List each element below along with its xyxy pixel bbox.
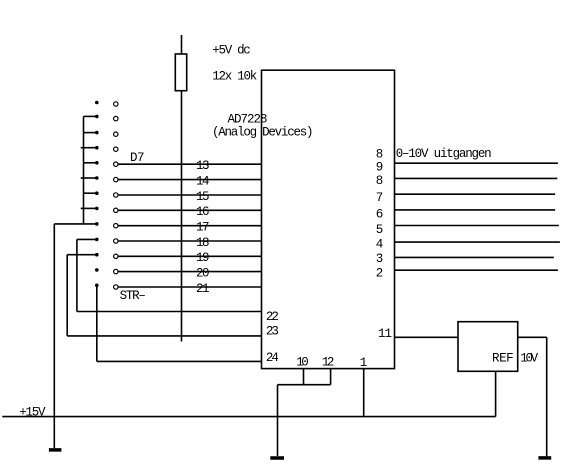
svg-text:10: 10: [296, 355, 309, 369]
connector J1 row 11 terminal circle: [114, 254, 118, 258]
wire row-9 stub from ground drop to bus/dot: [54, 223, 96, 225]
svg-text:5: 5: [376, 223, 384, 237]
connector J1 row 2 terminal circle: [114, 116, 118, 120]
svg-text:17: 17: [196, 221, 210, 235]
wire bus stub row 7: [84, 192, 96, 194]
connector J1 row 4 terminal circle: [114, 147, 118, 151]
svg-text:21: 21: [196, 282, 210, 296]
wire ground bus vertical (rows 2-9): [83, 116, 85, 223]
svg-text:3: 3: [376, 252, 384, 266]
svg-text:15: 15: [196, 190, 210, 204]
wire output line from pin 2: [395, 269, 558, 271]
svg-text:4: 4: [376, 237, 384, 251]
svg-text:1: 1: [360, 356, 368, 370]
connector J1 row 2 junction dot: [95, 115, 99, 119]
svg-text:STR–: STR–: [120, 289, 146, 303]
wire bus stub row 4: [81, 147, 96, 149]
wire pins 10/12 drop to ground: [277, 385, 279, 457]
svg-text:8: 8: [376, 174, 384, 188]
connector J1 row 7 junction dot: [95, 191, 99, 195]
wire output line from pin 6: [395, 209, 556, 211]
connector J1 row 8 junction dot: [95, 207, 99, 211]
connector J1 row 5 terminal circle: [114, 162, 118, 166]
wire REF bottom to +15V rail: [495, 371, 497, 416]
wire +15V rail: [2, 416, 495, 418]
wire bus stub row 8: [81, 207, 96, 209]
connector J1 row 1 terminal circle: [114, 102, 118, 106]
connector J1 row 6 terminal circle: [114, 177, 118, 181]
connector J1 row 4 junction dot: [95, 146, 99, 150]
connector J1 row 11 junction dot: [95, 253, 99, 257]
wire output line from pin 7: [395, 193, 556, 195]
wire to pin 24: [97, 360, 262, 362]
svg-text:+15V: +15V: [19, 405, 46, 419]
connector J1 row 6 junction dot: [95, 176, 99, 180]
svg-text:24: 24: [266, 351, 279, 365]
connector J1 row 1 junction dot: [95, 101, 99, 105]
svg-text:6: 6: [376, 208, 384, 222]
ground symbol left: [49, 448, 62, 452]
wire bus stub row 5: [84, 162, 96, 164]
svg-text:+5V dc: +5V dc: [212, 44, 251, 58]
connector J1 row 13 terminal circle: [114, 285, 118, 289]
svg-text:11: 11: [378, 327, 392, 341]
wire pin 11 to REF: [395, 336, 459, 338]
connector J1 row 3 junction dot: [95, 131, 99, 135]
wire ground drop vertical left: [53, 224, 55, 448]
svg-text:23: 23: [266, 324, 279, 338]
wire data line to pin 17: [118, 225, 261, 227]
svg-text:12: 12: [322, 355, 335, 369]
wire bus stub row 6: [81, 177, 96, 179]
svg-text:22: 22: [266, 310, 279, 324]
svg-text:7: 7: [376, 191, 384, 205]
connector J1 row 7 terminal circle: [114, 193, 118, 197]
svg-text:D7: D7: [130, 151, 145, 165]
svg-text:12x 10k: 12x 10k: [212, 70, 257, 84]
wire pin 12 down: [330, 369, 332, 385]
svg-text:20: 20: [196, 267, 210, 281]
wire data line to pin 13: [118, 163, 261, 165]
wire bus stub row 2: [84, 115, 96, 117]
connector J1 row 3 terminal circle: [114, 132, 118, 136]
svg-text:0–10V uitgangen: 0–10V uitgangen: [396, 147, 492, 161]
svg-text:18: 18: [196, 236, 210, 250]
wire output line from pin 9: [395, 162, 558, 164]
wire data line to pin 19: [118, 255, 261, 257]
connector J1 row 10 junction dot: [95, 238, 99, 242]
wire REF output drop to ground: [546, 337, 548, 456]
svg-text:16: 16: [196, 205, 210, 219]
svg-text:(Analog Devices): (Analog Devices): [212, 126, 314, 140]
connector J1 row 9 terminal circle: [114, 224, 118, 228]
wire row-11 drop vertical: [66, 255, 68, 336]
ground symbol right: [538, 456, 551, 460]
wire pin 10 down: [303, 369, 305, 385]
wire +5V supply stub to resistor top: [181, 35, 183, 54]
ground symbol centre: [270, 456, 284, 460]
connector J1 row 8 terminal circle: [114, 208, 118, 212]
voltage reference U2 REF box: [458, 322, 518, 372]
svg-text:REF: REF: [492, 352, 514, 366]
wire resistor bottom vertical rail down to pin-23 net: [181, 91, 183, 342]
wire data line to pin 20: [118, 271, 261, 273]
wire to pin 23: [67, 335, 261, 337]
svg-text:13: 13: [196, 159, 210, 173]
connector J1 row 9 junction dot: [95, 222, 99, 226]
wire data line to pin 14: [118, 179, 261, 181]
svg-text:AD7228: AD7228: [228, 113, 268, 127]
connector J1 row 10 terminal circle: [114, 239, 118, 243]
wire data line to pin 15: [118, 194, 261, 196]
connector J1 row 12 terminal circle: [114, 269, 118, 273]
wire data line to pin 18: [118, 240, 261, 242]
wire pin 1 to +15V rail: [363, 369, 365, 417]
wire row-10 stub: [77, 238, 96, 240]
svg-text:10V: 10V: [520, 352, 538, 366]
wire output line from pin 4: [395, 241, 560, 243]
wire REF output right: [518, 336, 547, 338]
op IC U1 AD7228 body: [262, 70, 395, 368]
wire data line to pin 21: [118, 286, 261, 288]
wire output line from pin 8: [395, 177, 558, 179]
wire to pin 22: [77, 311, 262, 313]
wire data line to pin 16: [118, 209, 261, 211]
wire row-11 stub: [67, 254, 96, 256]
resistor network RN1 12x10k body: [175, 54, 186, 91]
wire pins 10/12 joining bottom: [278, 384, 331, 386]
svg-text:8: 8: [376, 147, 384, 161]
connector J1 row 13 junction dot: [95, 284, 99, 288]
svg-text:2: 2: [376, 267, 384, 281]
svg-text:9: 9: [376, 161, 384, 175]
wire output line from pin 3: [395, 256, 554, 258]
svg-text:14: 14: [196, 175, 210, 189]
wire output line from pin 5: [395, 225, 559, 227]
wire bus stub row 3: [84, 132, 96, 134]
connector J1 row 12 junction dot: [95, 268, 99, 272]
connector J1 row 5 junction dot: [95, 161, 99, 165]
wire row-13 drop vertical from STR- dot: [96, 285, 98, 361]
wire row-10 drop vertical: [76, 239, 78, 311]
svg-text:19: 19: [196, 251, 210, 265]
